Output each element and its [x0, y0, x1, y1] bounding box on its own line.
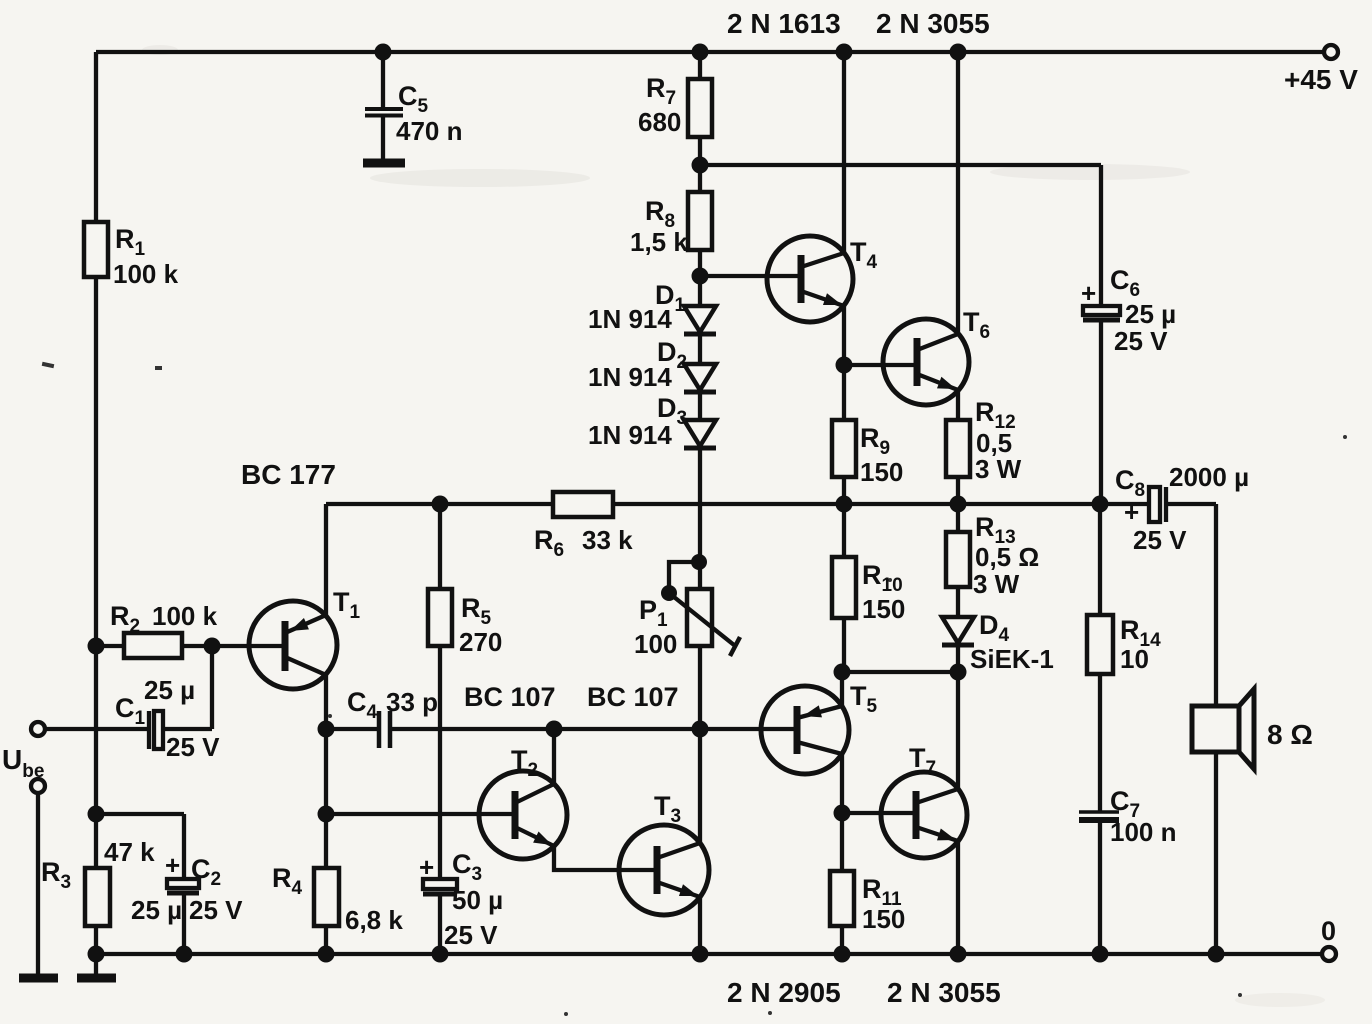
svg-text:150: 150 — [862, 594, 905, 624]
wire +45V top supply rail — [96, 50, 1324, 54]
wire T1 collector column — [324, 675, 328, 954]
svg-text:100 k: 100 k — [152, 601, 218, 631]
node R1/R2/R3 — [88, 638, 105, 655]
node top rail T6 collector — [950, 44, 967, 61]
potentiometer P1 — [687, 589, 712, 646]
svg-text:25 V: 25 V — [1133, 525, 1187, 555]
node T4 emitter / T6 base — [836, 357, 853, 374]
wire left bias column (R1 branch) — [94, 52, 98, 954]
svg-text:1N 914: 1N 914 — [588, 420, 672, 450]
transistor T7 — [881, 772, 967, 858]
svg-text:2 N 3055: 2 N 3055 — [887, 977, 1001, 1008]
wire T5 collector — [840, 754, 844, 813]
svg-text:25 µ: 25 µ — [131, 895, 182, 925]
node bottom rail ground — [88, 946, 105, 963]
node bottom rail C7 — [1092, 946, 1109, 963]
capacitor C6 — [1099, 165, 1103, 306]
transistor T2 — [479, 771, 567, 859]
speaker 8 ohm — [1192, 706, 1239, 752]
svg-text:1,5 k: 1,5 k — [630, 227, 688, 257]
node T5 collector / T7 base — [834, 805, 851, 822]
transistor T5 — [761, 686, 849, 774]
node bottom rail C2 — [176, 946, 193, 963]
node bottom rail speaker — [1208, 946, 1225, 963]
resistor R4 — [314, 868, 339, 926]
capacitor C3 — [423, 879, 457, 889]
resistor R13 — [956, 504, 960, 617]
svg-text:SiEK-1: SiEK-1 — [970, 644, 1054, 674]
node bottom rail T7 emitter — [950, 946, 967, 963]
node top rail T4 collector — [836, 44, 853, 61]
svg-text:+: + — [1081, 278, 1096, 308]
svg-text:3 W: 3 W — [975, 454, 1022, 484]
svg-text:BC 107: BC 107 — [464, 682, 556, 712]
wire T3 emitter — [698, 897, 702, 954]
node T1 collector / C4 — [318, 721, 335, 738]
node bottom rail R4 — [318, 946, 335, 963]
wire C4 row / T5 base — [326, 727, 797, 731]
node output rail R12/R13 — [950, 496, 967, 513]
ground (input) — [36, 793, 40, 975]
wire output rail — [326, 502, 1216, 506]
wire T2 collector — [552, 729, 556, 784]
ground (C5) — [363, 159, 405, 168]
wire P1 bottom to C4 row — [698, 646, 702, 729]
resistor R10 — [842, 504, 846, 672]
wire T6 collector — [956, 52, 960, 334]
wire C8 to speaker column — [1214, 504, 1218, 954]
terminal input Ube bottom — [31, 779, 45, 793]
wire T3 collector — [698, 729, 702, 843]
svg-text:BC 107: BC 107 — [587, 682, 679, 712]
svg-text:+: + — [1124, 497, 1139, 527]
svg-text:270: 270 — [459, 627, 502, 657]
node T5 emitter / R10 — [834, 664, 851, 681]
svg-text:25 µ: 25 µ — [1125, 299, 1176, 329]
node R2 / T1 base / C1 — [204, 638, 221, 655]
wire T4 collector — [842, 52, 846, 253]
svg-text:33 p: 33 p — [386, 687, 438, 717]
transistor T4 — [767, 236, 853, 322]
node bottom rail R11 — [834, 946, 851, 963]
resistor R2 — [96, 644, 212, 648]
capacitor C7 — [1079, 810, 1119, 814]
resistor R8 — [688, 192, 712, 250]
svg-text:10: 10 — [1120, 644, 1149, 674]
svg-text:47 k: 47 k — [104, 837, 155, 867]
svg-text:25 µ: 25 µ — [144, 675, 195, 705]
node P1 wiper — [661, 585, 677, 601]
resistor R14 — [1098, 504, 1102, 812]
node D4 / T7 collector — [950, 664, 967, 681]
node top rail R7 — [692, 44, 709, 61]
resistor R5 — [438, 504, 442, 879]
svg-text:1N 914: 1N 914 — [588, 304, 672, 334]
terminal input Ube top — [31, 722, 45, 736]
capacitor C4 — [379, 711, 390, 748]
resistor R7 — [698, 52, 702, 192]
node bottom rail T3 emitter — [692, 946, 709, 963]
node R5 top — [432, 496, 449, 513]
resistor R1 — [84, 222, 108, 277]
svg-text:33 k: 33 k — [582, 525, 633, 555]
svg-text:6,8 k: 6,8 k — [345, 905, 403, 935]
svg-text:150: 150 — [860, 457, 903, 487]
resistor R12 — [946, 420, 970, 477]
svg-text:+: + — [165, 850, 180, 880]
wire diode chain to P1 — [698, 448, 702, 589]
svg-text:25 V: 25 V — [444, 920, 498, 950]
resistor R9 — [842, 365, 846, 504]
node R3 top / C2 — [88, 806, 105, 823]
svg-text:25 V: 25 V — [166, 732, 220, 762]
svg-text:+45 V: +45 V — [1284, 64, 1358, 95]
wire T2 emitter to T3 base — [554, 846, 657, 870]
wire input to C1 — [45, 727, 147, 731]
capacitor C2 — [167, 879, 199, 888]
svg-text:0: 0 — [1321, 916, 1336, 946]
node output rail C6/R14 — [1092, 496, 1109, 513]
resistor R3 — [85, 868, 110, 926]
wire T7 collector — [956, 672, 960, 789]
diode D2 — [684, 364, 716, 390]
node R8/D1 junction — [692, 268, 709, 285]
svg-text:2 N 2905: 2 N 2905 — [727, 977, 841, 1008]
wire bottom 0V rail — [96, 952, 1322, 956]
wire T5 emitter row — [842, 670, 958, 674]
wire C1 to T1 base node — [210, 646, 214, 729]
svg-text:3 W: 3 W — [973, 569, 1020, 599]
wire T7 base — [842, 811, 916, 815]
wire T6 base — [844, 363, 917, 367]
svg-text:1N 914: 1N 914 — [588, 362, 672, 392]
svg-text:150: 150 — [862, 904, 905, 934]
svg-text:100 n: 100 n — [1110, 817, 1177, 847]
resistor R6 — [553, 492, 613, 517]
capacitor C1 — [147, 711, 151, 749]
diode D1 — [684, 306, 716, 332]
svg-text:2 N 3055: 2 N 3055 — [876, 8, 990, 39]
svg-text:+: + — [419, 852, 434, 882]
node output rail R9/R10 — [836, 496, 853, 513]
node top rail C5 — [375, 44, 392, 61]
capacitor C8 — [1149, 487, 1160, 522]
svg-text:100: 100 — [634, 629, 677, 659]
capacitor C5 — [381, 52, 385, 107]
wire R7/R8 junction to C6 — [700, 163, 1101, 167]
node P1 top — [691, 554, 707, 570]
terminal +45V — [1324, 45, 1338, 59]
transistor T1 — [249, 601, 337, 689]
terminal 0 — [1322, 947, 1336, 961]
svg-text:8 Ω: 8 Ω — [1267, 719, 1313, 750]
resistor R11 — [840, 813, 844, 954]
wire T4 emitter — [842, 306, 846, 365]
wire T7 emitter — [956, 841, 960, 954]
node R7/R8 junction — [692, 157, 709, 174]
transistor T6 — [883, 319, 969, 405]
wire T4 base — [700, 274, 801, 278]
node T2 base — [318, 806, 335, 823]
ground (bottom rail) — [94, 954, 98, 975]
wire T6 emitter — [956, 390, 960, 420]
svg-text:470 n: 470 n — [396, 116, 463, 146]
svg-text:2000 µ: 2000 µ — [1169, 462, 1249, 492]
svg-text:680: 680 — [638, 107, 681, 137]
wire T2 base — [326, 812, 515, 816]
svg-text:0,5 Ω: 0,5 Ω — [975, 542, 1039, 572]
transistor T3 — [619, 825, 709, 915]
diode D3 — [684, 420, 716, 446]
wire node to C2 — [96, 814, 184, 879]
wire T1 emitter to output rail — [324, 504, 328, 615]
svg-text:50 µ: 50 µ — [452, 885, 503, 915]
wire T5 emitter — [840, 672, 844, 706]
node bottom rail C3 — [432, 946, 449, 963]
diode D4 — [942, 617, 974, 643]
svg-text:2 N 1613: 2 N 1613 — [727, 8, 841, 39]
svg-text:25 V: 25 V — [1114, 326, 1168, 356]
node P1 / T3 collector / T5 base — [692, 721, 709, 738]
svg-text:BC 177: BC 177 — [241, 459, 336, 490]
svg-text:100 k: 100 k — [113, 259, 179, 289]
node T2 collector — [546, 721, 563, 738]
wire T1 base — [212, 644, 285, 648]
svg-text:25 V: 25 V — [189, 895, 243, 925]
